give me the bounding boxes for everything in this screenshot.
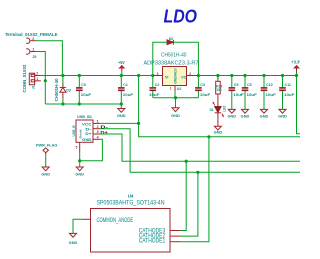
capacitor C0 (76, 76, 92, 105)
junction USB shield gnd (78, 159, 81, 162)
junction +5V / C1 top (120, 74, 123, 77)
svg-text:C1: C1 (123, 83, 128, 87)
svg-text:2: 2 (36, 72, 38, 76)
power +3.3V (291, 59, 302, 75)
ground below USB (75, 167, 84, 177)
svg-text:10uF: 10uF (81, 93, 92, 97)
svg-text:Shield: Shield (79, 129, 83, 138)
wire USB GND pin to shield tie (80, 139, 103, 161)
svg-text:GND: GND (69, 241, 78, 245)
junction R top (216, 74, 219, 77)
junction D3 top (61, 74, 64, 77)
svg-text:LED: LED (222, 105, 226, 112)
svg-text:C0: C0 (81, 83, 86, 87)
ground below C1 (117, 104, 126, 118)
svg-text:CONN_01X02: CONN_01X02 (22, 64, 27, 92)
wire cathode2 riser (181, 172, 198, 236)
svg-text:C2: C2 (155, 83, 160, 87)
svg-text:10uF: 10uF (200, 93, 211, 97)
svg-text:ADP3338AKCZ3.3-R7: ADP3338AKCZ3.3-R7 (144, 60, 199, 66)
power flag PWR_FLAG (36, 143, 57, 167)
svg-text:GND: GND (75, 173, 84, 177)
junction C2 top (151, 74, 154, 77)
svg-text:2: 2 (32, 37, 34, 41)
connector USB_B1 body (72, 120, 93, 142)
connector J5 pin 2 (26, 38, 36, 43)
connector J5 pin 1 (26, 49, 36, 54)
svg-text:CH501H-40: CH501H-40 (54, 78, 59, 102)
svg-text:C5: C5 (247, 83, 252, 87)
capacitor C9 (229, 76, 245, 110)
svg-text:1: 1 (97, 120, 99, 124)
LED D1 (210, 102, 227, 127)
svg-text:GND: GND (41, 173, 50, 177)
connector J1 body (29, 73, 41, 85)
junction USB VCC (137, 122, 140, 125)
svg-text:+5V: +5V (118, 60, 125, 65)
svg-text:CATHODE1: CATHODE1 (139, 238, 166, 244)
svg-text:1: 1 (32, 48, 34, 52)
svg-text:GND: GND (260, 114, 269, 118)
svg-text:GND: GND (241, 114, 250, 118)
svg-text:C11: C11 (285, 83, 291, 87)
svg-text:10uF: 10uF (266, 93, 277, 97)
capacitor C3 (195, 76, 211, 98)
wire terminal pin1 to J1 pin1 / gnd rail (36, 52, 46, 105)
svg-text:J1: J1 (32, 85, 36, 89)
capacitor C10 (261, 76, 277, 110)
svg-text:GND: GND (228, 114, 237, 118)
junction C1 bottom rail end (120, 102, 123, 105)
junction D3 bottom (61, 102, 64, 105)
wire net D+ (100, 134, 300, 161)
ground below C10 (260, 109, 269, 118)
svg-text:1: 1 (36, 77, 38, 81)
svg-text:D+: D+ (85, 132, 91, 136)
svg-text:3: 3 (97, 130, 99, 134)
svg-text:4: 4 (97, 136, 99, 140)
junction C0 bottom (78, 102, 81, 105)
capacitor C1 (118, 76, 134, 105)
junction VBUS drop top (137, 74, 140, 77)
svg-text:10uF: 10uF (284, 93, 295, 97)
svg-text:U2: U2 (177, 87, 182, 91)
svg-text:CH501H-40: CH501H-40 (161, 53, 187, 59)
wire shield to gnd (79, 153, 81, 168)
junction U2 gnd (174, 96, 177, 99)
wire net D- (100, 129, 300, 173)
svg-text:+3.3V: +3.3V (291, 59, 300, 64)
svg-text:3: 3 (157, 72, 159, 76)
regulator U2 (153, 67, 199, 92)
svg-text:GND: GND (278, 114, 287, 118)
ground below PWR_FLAG (41, 167, 50, 177)
wire D2 bypass loop (153, 42, 167, 75)
svg-text:10uF: 10uF (233, 93, 244, 97)
ground below C9 (228, 109, 237, 118)
junction C3 top (197, 74, 200, 77)
wire U2 ground line (153, 97, 199, 99)
svg-text:10uF: 10uF (149, 93, 160, 97)
svg-text:GND: GND (171, 114, 180, 118)
power +5V (118, 60, 125, 76)
ground below C5 (241, 109, 250, 118)
svg-text:SP0503BAHTG_SOT143-4N: SP0503BAHTG_SOT143-4N (97, 201, 165, 207)
diode D2 (167, 40, 173, 45)
junction C10 top (262, 74, 265, 77)
svg-text:GND: GND (117, 114, 126, 118)
svg-text:USB_B1: USB_B1 (77, 115, 92, 119)
svg-text:150: 150 (216, 88, 222, 92)
svg-text:USB_B: USB_B (72, 125, 76, 137)
svg-text:10uF: 10uF (247, 93, 258, 97)
connector USB_B1 pins (80, 123, 101, 152)
junction +3.3V rail end (295, 74, 298, 77)
svg-text:GND: GND (214, 131, 223, 135)
wire +3.3V down right edge (297, 76, 301, 134)
resistor R15 (216, 76, 223, 107)
wire cathode3 riser (181, 161, 187, 230)
capacitor C11 (279, 76, 295, 110)
diode D3 (60, 83, 66, 99)
svg-text:GND: GND (82, 138, 92, 142)
svg-text:C10: C10 (266, 83, 273, 87)
svg-text:D1: D1 (210, 108, 214, 112)
ESD array U4 body (91, 209, 171, 253)
svg-text:COMMON_ANODE: COMMON_ANODE (97, 218, 134, 224)
ground below U2 (171, 98, 180, 118)
svg-text:C3: C3 (200, 83, 205, 87)
junction D- to cathode2 riser (196, 171, 199, 174)
ground below C11 (278, 109, 287, 118)
wire +5V top rail left segment (41, 75, 153, 77)
svg-text:U4: U4 (128, 193, 134, 198)
svg-text:GND/ADJ: GND/ADJ (173, 68, 178, 84)
svg-text:2: 2 (97, 125, 99, 129)
svg-text:5: 5 (76, 146, 78, 150)
svg-text:10uF: 10uF (123, 93, 134, 97)
svg-text:VCC: VCC (82, 122, 92, 126)
wire D3 leads green (62, 76, 64, 84)
wire common anode to gnd (73, 219, 82, 233)
svg-text:J5: J5 (32, 55, 36, 59)
junction C9 top (230, 74, 233, 77)
junction C0 top (78, 74, 81, 77)
ground below LED D1 (214, 126, 223, 135)
svg-text:PWR_FLAG: PWR_FLAG (36, 143, 57, 147)
wire terminal pin2 to +5V rail (36, 41, 63, 76)
capacitor C2 (149, 76, 160, 98)
wire USB VCC to +5V drop (100, 122, 138, 124)
wire cathode1 riser (181, 137, 209, 242)
junction VBUS to cathode1 riser (207, 135, 210, 138)
junction C11 top (281, 74, 284, 77)
svg-text:VI: VI (165, 75, 168, 79)
svg-text:D3: D3 (66, 88, 71, 92)
wire +3.3V top rail right segment (198, 75, 296, 77)
capacitor C5 (242, 76, 258, 110)
svg-text:LDO: LDO (164, 5, 198, 26)
svg-text:1: 1 (170, 87, 172, 91)
ESD array U4 pins (82, 219, 181, 241)
svg-text:VO: VO (181, 75, 186, 79)
wire gnd bottom rail (45, 103, 121, 105)
junction D+ to cathode3 riser (185, 160, 188, 163)
ground below U4 common anode (69, 233, 78, 245)
wire +5V drop to USB VCC and VBUS line (139, 76, 300, 137)
svg-text:2: 2 (189, 72, 191, 76)
svg-text:C9: C9 (234, 83, 239, 87)
junction C5 top (243, 74, 246, 77)
junction J1 pin1 (44, 79, 47, 82)
